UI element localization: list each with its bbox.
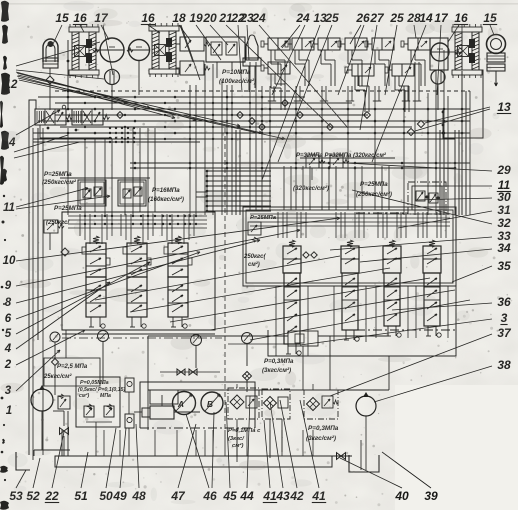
svg-text:39: 39 bbox=[424, 489, 438, 503]
svg-text:40: 40 bbox=[394, 489, 409, 503]
